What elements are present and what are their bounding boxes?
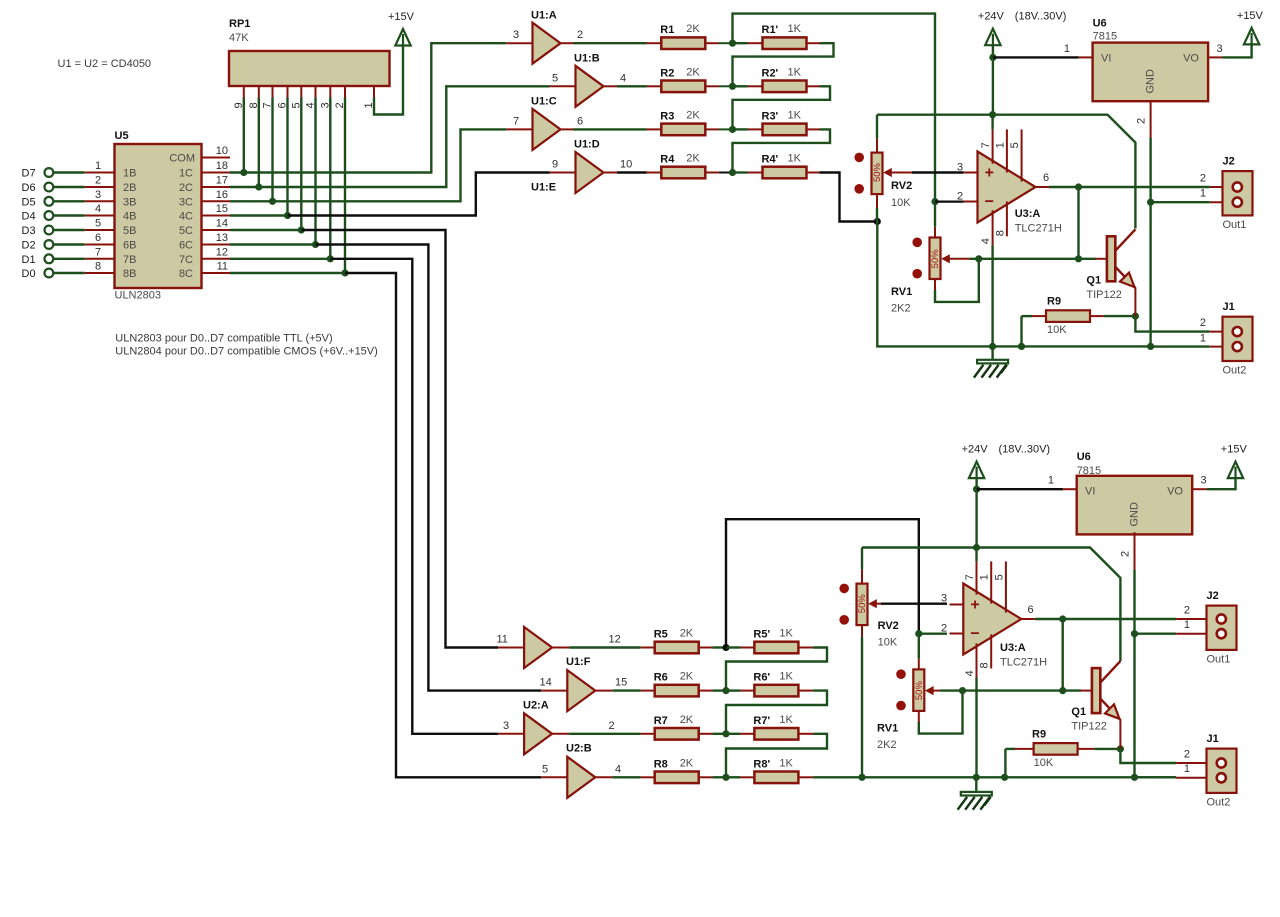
wire junction to R2' <box>733 85 748 87</box>
label U1:A <box>531 10 557 22</box>
J1 pin2 label <box>1200 317 1206 329</box>
junction ladder out / RV2 bottom <box>874 218 881 225</box>
wire RV1 bottom stub (bottom) <box>918 711 920 722</box>
svg-text:5: 5 <box>542 763 548 775</box>
wire R3 to junction <box>719 128 733 130</box>
svg-text:4: 4 <box>980 238 992 244</box>
svg-text:3: 3 <box>1217 43 1223 55</box>
svg-text:4: 4 <box>95 203 101 215</box>
resistor R5 <box>641 628 713 654</box>
junction -in <box>931 198 938 205</box>
wire to J2 pin1 (bottom) <box>1135 633 1177 635</box>
junction J2 pin1 tap (bottom) <box>1131 630 1138 637</box>
wire junction to R4' <box>733 171 748 173</box>
svg-text:7C: 7C <box>179 254 193 266</box>
svg-text:8C: 8C <box>179 268 193 280</box>
svg-text:TLC271H: TLC271H <box>1015 223 1062 235</box>
input terminal D6 <box>22 182 54 194</box>
svg-text:2: 2 <box>1200 173 1206 185</box>
svg-text:7: 7 <box>980 142 992 148</box>
svg-text:2B: 2B <box>123 182 136 194</box>
label RV2 value <box>891 197 911 209</box>
wire RV2 top stub <box>876 139 878 153</box>
svg-text:2K: 2K <box>686 109 700 121</box>
wire 6C to buffer 14 <box>316 245 542 691</box>
svg-text:2K: 2K <box>686 153 700 165</box>
resistor R7' <box>740 714 813 740</box>
wire rail to Q1 collector (bottom) <box>862 548 1120 662</box>
pin 15 label (bottom 1) <box>615 677 627 689</box>
wire 4C to U1:D <box>288 173 550 216</box>
svg-text:3: 3 <box>1201 475 1207 487</box>
svg-text:2: 2 <box>1120 551 1132 557</box>
svg-text:1: 1 <box>1064 43 1070 55</box>
svg-text:4: 4 <box>620 72 626 84</box>
label U1:B <box>574 53 600 65</box>
junction R9/emitter (bottom) <box>1117 745 1124 752</box>
U5 pin 2 <box>85 175 137 195</box>
wire to R9 <box>1022 315 1033 317</box>
svg-text:R9: R9 <box>1047 296 1061 308</box>
wire 2C to U1:B <box>230 86 550 187</box>
junction RP1 pin 5 <box>298 226 305 233</box>
junction +24V <box>989 54 996 61</box>
wire R9 left to ground <box>1020 316 1022 346</box>
connector J1 (top) <box>1210 301 1253 377</box>
svg-text:U3:A: U3:A <box>1015 208 1041 220</box>
label RV2 value (bottom) <box>878 637 898 649</box>
junction base node <box>1075 255 1082 262</box>
svg-text:2: 2 <box>957 190 963 202</box>
buffer U1:C <box>506 109 573 150</box>
wire R9 to emitter node (bottom) <box>1094 748 1120 750</box>
wire RP1 pin 9 <box>243 98 245 173</box>
svg-text:12: 12 <box>609 634 621 646</box>
svg-text:10K: 10K <box>878 637 898 649</box>
svg-text:1: 1 <box>1200 188 1206 200</box>
label U3:A (bottom) <box>1000 642 1026 654</box>
svg-text:8: 8 <box>95 261 101 273</box>
buffer U1:D <box>550 152 618 193</box>
wire R4' out to RV2 bottom <box>820 173 875 222</box>
J2 pin2 label (bottom) <box>1184 605 1190 617</box>
svg-text:11: 11 <box>497 634 508 646</box>
svg-text:R1: R1 <box>660 24 674 36</box>
junction ground symbol <box>989 343 996 350</box>
wire to ground symbol (bottom) <box>975 777 977 792</box>
label U2:B <box>566 743 592 755</box>
svg-text:50%: 50% <box>930 249 941 269</box>
svg-text:TLC271H: TLC271H <box>1000 657 1047 669</box>
svg-text:4: 4 <box>615 763 621 775</box>
power +15V (top left) <box>388 11 415 46</box>
svg-text:+24V: +24V <box>962 444 989 456</box>
svg-text:4B: 4B <box>123 211 136 223</box>
junction R4/R4' <box>729 169 736 176</box>
J2 pin2 label <box>1200 173 1206 185</box>
label TLC271H <box>1015 223 1062 235</box>
wire 3C to U1:C <box>230 129 506 201</box>
svg-text:7815: 7815 <box>1077 465 1101 477</box>
resistor pack RP1 <box>229 18 390 109</box>
U5 pin 6 <box>85 232 137 252</box>
pin 3 label <box>957 161 963 173</box>
label U3:A <box>1015 208 1041 220</box>
pin 12 label (bottom 0) <box>609 634 621 646</box>
wire RV1 wiper to Q1 base <box>969 258 1096 260</box>
wire R8' out / bottom ground row <box>813 776 1176 778</box>
wire R6 to junction <box>712 689 726 691</box>
label RV2 <box>891 180 912 192</box>
svg-text:5: 5 <box>993 574 1005 580</box>
svg-text:−: − <box>985 194 994 211</box>
input terminal D5 <box>22 196 54 208</box>
power +15V (top right) <box>1237 10 1264 45</box>
pin 3 label (U6) <box>1217 43 1223 55</box>
svg-text:R6': R6' <box>753 672 770 684</box>
svg-text:11: 11 <box>217 261 228 273</box>
svg-text:10: 10 <box>620 159 632 171</box>
svg-text:D4: D4 <box>22 211 36 223</box>
svg-text:D0: D0 <box>22 268 36 280</box>
svg-text:7B: 7B <box>123 254 136 266</box>
junction RV1 wiper <box>975 255 982 262</box>
pin 5 label (bottom 3) <box>542 763 548 775</box>
svg-text:10: 10 <box>216 145 228 157</box>
wire RV2 top to rail (bottom) <box>861 548 863 570</box>
pin 5 label <box>552 72 558 84</box>
svg-text:D5: D5 <box>22 196 36 208</box>
pin 4 label (bottom 3) <box>615 763 621 775</box>
J1 pin2 label (bottom) <box>1184 749 1190 761</box>
resistor R3' <box>748 109 820 135</box>
svg-text:R2': R2' <box>762 67 779 79</box>
svg-text:2K: 2K <box>680 757 694 769</box>
wire -in to pin2 <box>935 201 964 203</box>
IC U5 ULN2803 <box>115 130 202 302</box>
wire RV2 wiper to op-amp +in <box>912 171 964 173</box>
U5 pin 8 <box>85 261 137 281</box>
buffer U2:B (5-4) <box>541 757 612 798</box>
svg-text:R8': R8' <box>753 758 770 770</box>
wire pin4 to ground (bottom) <box>975 678 977 778</box>
U5 pin 4 <box>85 203 137 223</box>
wire feedback to op-amp -in <box>733 14 936 202</box>
wire R7' fold <box>726 734 827 778</box>
svg-text:+15V: +15V <box>388 11 415 23</box>
U5 pin 16 <box>179 189 230 209</box>
label TIP122 (bottom) <box>1071 721 1106 733</box>
svg-text:47K: 47K <box>229 32 249 44</box>
power +24V (top) <box>978 11 1005 46</box>
svg-text:Out1: Out1 <box>1207 654 1231 666</box>
wire +24V rail to Q1 collector <box>877 115 1135 229</box>
svg-text:U6: U6 <box>1077 451 1091 463</box>
wire U6 VO to +15V <box>1223 44 1252 57</box>
wire RP1 pin 7 <box>271 98 273 202</box>
junction RP1 pin 8 <box>255 183 262 190</box>
pin 10 label <box>620 159 632 171</box>
pin 3 label <box>513 29 519 41</box>
junction RP1 pin 9 <box>240 169 247 176</box>
op-amp U3:A (top) <box>964 129 1049 245</box>
U5 pin 5 <box>85 218 137 238</box>
svg-text:1: 1 <box>1048 475 1054 487</box>
svg-text:U3:A: U3:A <box>1000 642 1026 654</box>
U5 pin 10 COM <box>202 145 231 158</box>
wire ground row to J1 pin1 (bottom) <box>1135 776 1177 778</box>
resistor R5' <box>740 628 813 654</box>
svg-text:U1 = U2 = CD4050: U1 = U2 = CD4050 <box>58 58 152 70</box>
junction +24V (bottom) <box>973 486 980 493</box>
svg-text:7: 7 <box>964 574 976 580</box>
svg-text:D1: D1 <box>22 254 36 266</box>
U5 pin 11 <box>179 261 230 281</box>
label 18V..30V <box>1015 11 1067 23</box>
ground (bottom) <box>958 792 992 810</box>
wire D5 to U5 <box>53 200 85 202</box>
svg-text:U1:F: U1:F <box>566 656 591 668</box>
svg-text:R1': R1' <box>762 24 779 36</box>
svg-text:Q1: Q1 <box>1086 275 1101 287</box>
resistor R2 <box>647 66 720 92</box>
junction out <box>1075 183 1082 190</box>
junction R7/R7' <box>722 730 729 737</box>
input terminal D3 <box>22 225 54 237</box>
svg-text:1K: 1K <box>788 66 802 78</box>
wire +24V to U6 VI <box>993 56 1079 58</box>
svg-text:R3: R3 <box>660 110 674 122</box>
svg-text:TIP122: TIP122 <box>1071 721 1106 733</box>
svg-text:12: 12 <box>216 246 228 258</box>
pin 3 label (bottom 2) <box>503 720 509 732</box>
wire 8C to buffer 5 <box>345 273 541 777</box>
wire +24V down <box>992 45 994 115</box>
potentiometer RV2 (top) <box>854 153 911 195</box>
wire to R9 (bottom) <box>1005 748 1015 750</box>
svg-text:15: 15 <box>216 203 228 215</box>
pin 3 label (U6 bottom) <box>1201 475 1207 487</box>
svg-text:1K: 1K <box>788 153 802 165</box>
J1 pin1 label <box>1200 332 1206 344</box>
junction rail (bottom) <box>973 544 980 551</box>
svg-text:R8: R8 <box>654 758 668 770</box>
U5 pin 15 <box>179 203 230 223</box>
potentiometer RV2 (bottom) <box>839 584 881 626</box>
junction RV2 bottom (bottom half) <box>858 774 865 781</box>
voltage regulator U6 (bottom) <box>1063 451 1207 570</box>
resistor R9 (top) <box>1032 296 1104 337</box>
power +15V (bottom) <box>1221 444 1248 479</box>
pin 6 label <box>577 115 583 127</box>
svg-text:R9: R9 <box>1032 728 1046 740</box>
junction RP1 pin 6 <box>284 212 291 219</box>
svg-text:5B: 5B <box>123 225 136 237</box>
label Q1 <box>1086 275 1101 287</box>
svg-text:2: 2 <box>1184 605 1190 617</box>
wire to ground symbol <box>991 346 993 359</box>
junction RV1 wiper (bottom) <box>959 687 966 694</box>
wire R9 left to ground (bottom) <box>1004 749 1006 777</box>
note ULN2803 <box>115 333 332 345</box>
pin 2 label <box>577 29 583 41</box>
pin 2 label (bottom 2) <box>609 720 615 732</box>
junction R8/R8' <box>722 774 729 781</box>
svg-text:U6: U6 <box>1093 18 1107 30</box>
input terminal D7 <box>22 168 54 180</box>
input terminal D0 <box>22 268 54 280</box>
svg-text:D6: D6 <box>22 182 36 194</box>
wire U1:D out to R4 <box>617 171 647 173</box>
svg-text:2: 2 <box>609 720 615 732</box>
wire 5C <box>230 229 301 231</box>
svg-text:16: 16 <box>216 189 228 201</box>
svg-text:1K: 1K <box>788 23 802 35</box>
wire Q1 emitter down <box>1134 288 1136 317</box>
svg-text:1: 1 <box>994 142 1006 148</box>
wire R5 to junction <box>712 646 726 648</box>
svg-text:2K: 2K <box>680 671 694 683</box>
U5 pin 18 <box>179 160 230 180</box>
svg-text:R3': R3' <box>762 110 779 122</box>
wire D7 to U5 <box>53 171 85 173</box>
svg-text:15: 15 <box>615 677 627 689</box>
svg-text:VO: VO <box>1183 53 1199 65</box>
svg-text:RV2: RV2 <box>891 180 912 192</box>
resistor R1' <box>748 23 820 49</box>
svg-text:3: 3 <box>941 593 947 605</box>
svg-text:J1: J1 <box>1223 301 1235 313</box>
junction RP1 pin 2 <box>341 269 348 276</box>
resistor R9 (bottom) <box>1015 728 1094 769</box>
junction rail <box>989 111 996 118</box>
svg-text:3: 3 <box>95 189 101 201</box>
junction R9 left <box>1018 343 1025 350</box>
svg-text:2: 2 <box>941 623 947 635</box>
resistor R6 <box>641 671 713 697</box>
input terminal D1 <box>22 254 54 266</box>
J2 pin1 label <box>1200 188 1206 200</box>
resistor R3 <box>647 109 720 135</box>
wire RV2 bottom to junction <box>876 208 878 222</box>
junction GND/ground row <box>1147 343 1154 350</box>
svg-text:6C: 6C <box>179 240 193 252</box>
svg-text:2: 2 <box>1136 118 1148 124</box>
wire 8C <box>230 272 345 274</box>
label RV1 value <box>891 302 911 314</box>
transistor Q1 (top) <box>1095 229 1135 288</box>
wire buffer out to R8 <box>612 776 640 778</box>
svg-text:R4: R4 <box>660 154 675 166</box>
svg-text:J2: J2 <box>1207 590 1219 602</box>
svg-text:3: 3 <box>503 720 509 732</box>
wire RV1 bottom fold <box>935 259 979 302</box>
junction ground symbol (bottom) <box>973 774 980 781</box>
svg-text:13: 13 <box>216 232 228 244</box>
svg-text:3C: 3C <box>179 196 193 208</box>
svg-text:+: + <box>985 165 994 182</box>
svg-text:−: − <box>970 626 979 643</box>
wire R2' fold <box>733 86 831 129</box>
label Q1 (bottom) <box>1071 706 1086 718</box>
voltage regulator U6 (top) <box>1079 18 1223 139</box>
label U1:D <box>574 139 600 151</box>
wire R3' fold <box>733 129 831 172</box>
svg-text:2K2: 2K2 <box>877 739 897 751</box>
svg-text:(18V..30V): (18V..30V) <box>1015 11 1067 23</box>
svg-text:Out2: Out2 <box>1207 797 1231 809</box>
wire RV2 bottom stub (bottom) <box>861 625 863 637</box>
wire R6' fold <box>726 691 827 734</box>
wire rail to pin7 <box>991 115 993 130</box>
svg-text:+24V: +24V <box>978 11 1005 23</box>
svg-text:1C: 1C <box>179 168 193 180</box>
svg-text:6: 6 <box>1028 604 1034 616</box>
wire op-amp out to J2 (bottom) <box>1035 618 1176 620</box>
wire junction to R5' <box>726 646 740 648</box>
pin 14 label (bottom 1) <box>540 677 552 689</box>
wire U6 GND down <box>1149 138 1151 346</box>
svg-text:10K: 10K <box>891 197 911 209</box>
wire R4 to junction <box>719 172 733 174</box>
U5 pin 1 <box>85 160 137 180</box>
resistor R2' <box>748 66 820 92</box>
svg-text:6: 6 <box>577 115 583 127</box>
svg-text:5: 5 <box>95 218 101 230</box>
wire R2 to junction <box>719 85 733 87</box>
wire RP1 pin 5 <box>300 98 302 231</box>
svg-text:2K2: 2K2 <box>891 302 911 314</box>
wire RV1 top stub (bottom) <box>918 659 920 670</box>
junction R1/R1' <box>729 40 736 47</box>
svg-text:7815: 7815 <box>1093 31 1117 43</box>
svg-text:2: 2 <box>1200 317 1206 329</box>
label RV1 (bottom) <box>877 723 898 735</box>
svg-text:U2:B: U2:B <box>566 743 592 755</box>
wire Q1 emitter down (bottom) <box>1119 719 1121 749</box>
svg-text:ULN2803 pour D0..D7 compatible: ULN2803 pour D0..D7 compatible TTL (+5V) <box>115 333 332 345</box>
wire emitter to J1 pin2 (bottom) <box>1120 749 1176 763</box>
pin 4 label <box>620 72 626 84</box>
svg-text:R4': R4' <box>762 154 779 166</box>
svg-text:RV1: RV1 <box>877 723 898 735</box>
wire R9 to emitter node <box>1104 315 1136 317</box>
svg-text:2K: 2K <box>686 23 700 35</box>
junction R3/R3' <box>729 126 736 133</box>
wire 4C <box>230 214 288 216</box>
wire RV2 wiper to +in (bottom) <box>881 603 947 605</box>
wire emitter to J1 pin2 <box>1135 316 1209 332</box>
svg-text:+15V: +15V <box>1221 444 1248 456</box>
svg-text:1K: 1K <box>779 628 793 640</box>
svg-text:D7: D7 <box>22 168 36 180</box>
wire ground row <box>963 345 1151 347</box>
wire RV2 bottom stub <box>876 194 878 208</box>
resistor R7 <box>641 714 713 740</box>
svg-text:J2: J2 <box>1223 156 1235 168</box>
svg-text:+: + <box>970 597 979 614</box>
svg-text:2: 2 <box>1184 749 1190 761</box>
label TLC271H (bottom) <box>1000 657 1047 669</box>
svg-text:U1:D: U1:D <box>574 139 600 151</box>
wire U6 VO to +15V (bottom) <box>1207 476 1236 489</box>
wire RV1 bottom stub <box>934 279 936 290</box>
wire R5' fold <box>726 648 827 691</box>
svg-text:U1:A: U1:A <box>531 10 557 22</box>
wire U6 GND down (bottom) <box>1133 570 1135 777</box>
svg-text:6: 6 <box>1043 172 1049 184</box>
buffer U1:B <box>550 66 618 107</box>
